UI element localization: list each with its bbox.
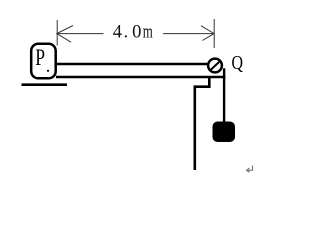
block P box	[31, 44, 56, 79]
dimension arrow shaft right	[163, 33, 214, 35]
dimension extension line right	[213, 19, 215, 48]
support bracket and post	[195, 77, 210, 171]
beam top edge	[56, 63, 209, 66]
svg-text:P: P	[35, 45, 45, 70]
svg-text:Q: Q	[232, 52, 244, 74]
dimension arrowhead right	[201, 26, 214, 41]
hanging weight	[213, 122, 236, 143]
svg-text:m: m	[143, 22, 153, 42]
dimension arrow shaft left	[57, 33, 104, 35]
pulley axle diagonal	[211, 62, 220, 70]
svg-text:4.0: 4.0	[113, 22, 142, 42]
rope from pulley	[223, 68, 225, 122]
paragraph return mark	[247, 166, 253, 173]
beam bottom edge	[56, 76, 226, 79]
dimension extension line left	[56, 20, 58, 46]
dimension arrowhead left	[57, 26, 73, 43]
wall base line under P	[22, 83, 68, 86]
pulley Q circle	[208, 59, 222, 73]
dot inside block P	[47, 70, 49, 72]
